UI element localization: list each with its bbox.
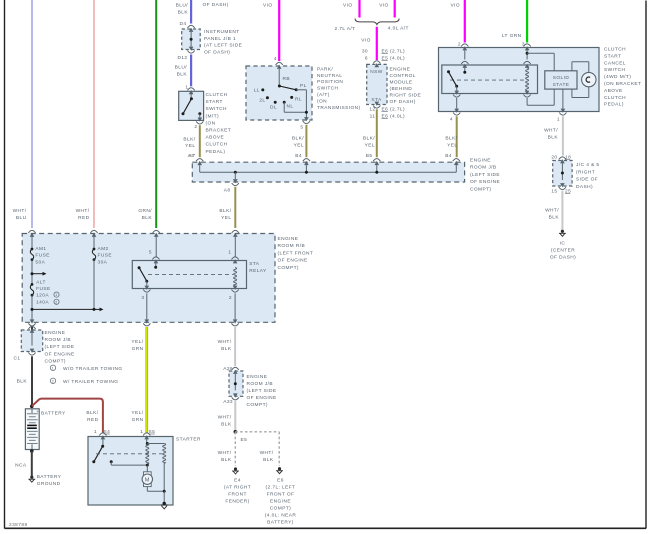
svg-text:NCA: NCA [15, 463, 27, 469]
svg-text:140A: 140A [36, 300, 49, 306]
svg-text:YEL: YEL [185, 143, 195, 149]
svg-text:2: 2 [52, 379, 54, 383]
svg-text:ABOVE: ABOVE [604, 88, 623, 94]
svg-text:IC: IC [560, 241, 566, 247]
svg-text:BLK: BLK [221, 346, 232, 352]
svg-text:BLK: BLK [548, 135, 559, 141]
svg-text:BLU/: BLU/ [176, 3, 189, 9]
svg-text:5: 5 [149, 250, 152, 256]
svg-text:YEL: YEL [447, 142, 457, 148]
svg-text:YEL: YEL [221, 215, 231, 221]
svg-text:RB: RB [283, 76, 291, 82]
svg-text:3: 3 [141, 295, 144, 301]
svg-text:COMPT): COMPT) [270, 506, 291, 512]
svg-text:PARK/: PARK/ [317, 66, 333, 72]
svg-text:1: 1 [55, 293, 57, 297]
svg-text:1: 1 [228, 250, 231, 256]
svg-text:OF ENGINE: OF ENGINE [247, 395, 277, 401]
svg-text:D12: D12 [177, 55, 187, 61]
svg-text:VIO: VIO [450, 3, 460, 9]
svg-text:BLK: BLK [142, 215, 153, 221]
svg-text:2.7L A/T: 2.7L A/T [334, 26, 355, 32]
svg-text:YEL/: YEL/ [131, 410, 143, 416]
svg-text:OF DASH): OF DASH) [203, 2, 229, 8]
svg-text:PEDAL): PEDAL) [604, 102, 624, 108]
svg-text:3: 3 [522, 42, 525, 48]
svg-text:30A: 30A [98, 259, 108, 265]
svg-text:(LEFT SIDE: (LEFT SIDE [470, 172, 500, 178]
svg-text:11: 11 [370, 114, 376, 120]
svg-text:ENGINE: ENGINE [278, 236, 299, 242]
svg-text:COMPT): COMPT) [247, 402, 268, 408]
svg-text:(AT LEFT SIDE: (AT LEFT SIDE [204, 43, 242, 49]
svg-text:LT GRN: LT GRN [502, 33, 522, 39]
svg-text:BLK: BLK [549, 215, 560, 221]
svg-text:WHT/: WHT/ [545, 208, 559, 214]
svg-text:OF DASH): OF DASH) [550, 255, 576, 261]
svg-text:M: M [145, 477, 150, 483]
svg-text:A33: A33 [223, 399, 233, 405]
svg-text:SIDE OF: SIDE OF [576, 177, 598, 183]
svg-text:DASH): DASH) [576, 184, 593, 190]
svg-text:RL: RL [295, 97, 302, 103]
svg-text:WHT/: WHT/ [544, 128, 558, 134]
svg-text:12: 12 [369, 107, 375, 113]
svg-text:POSITION: POSITION [317, 79, 343, 85]
svg-text:SWITCH: SWITCH [604, 67, 626, 73]
svg-text:MODULE: MODULE [390, 80, 413, 86]
svg-text:D4: D4 [180, 21, 187, 27]
svg-text:W/O TRAILER TOWING: W/O TRAILER TOWING [63, 366, 123, 372]
svg-text:STA: STA [249, 261, 260, 267]
svg-text:4.0L A/T: 4.0L A/T [388, 26, 409, 32]
svg-text:ENGINE: ENGINE [390, 67, 411, 73]
svg-text:SWITCH: SWITCH [317, 86, 339, 92]
svg-text:E6: E6 [277, 478, 284, 484]
svg-text:FRONT: FRONT [228, 492, 247, 498]
svg-text:GRN: GRN [132, 346, 144, 352]
svg-text:A7: A7 [189, 153, 196, 159]
svg-text:ABOVE: ABOVE [206, 135, 225, 141]
svg-text:(LEFT SIDE: (LEFT SIDE [45, 344, 75, 350]
svg-text:50A: 50A [35, 259, 45, 265]
svg-text:BLK: BLK [221, 457, 232, 463]
svg-text:LL: LL [254, 88, 260, 94]
svg-text:(ON BRACKET: (ON BRACKET [604, 81, 641, 87]
svg-text:J/C 4 & 5: J/C 4 & 5 [576, 162, 600, 168]
svg-text:CLUTCH: CLUTCH [206, 142, 228, 148]
svg-text:6: 6 [365, 56, 368, 62]
svg-text:OF DASH): OF DASH) [390, 99, 416, 105]
svg-text:CLUTCH: CLUTCH [604, 95, 626, 101]
svg-text:120A: 120A [36, 292, 49, 298]
svg-text:GRN/: GRN/ [138, 208, 152, 214]
svg-text:ROOM J/B: ROOM J/B [470, 165, 497, 171]
svg-text:BLK/: BLK/ [292, 136, 304, 142]
svg-text:CONTROL: CONTROL [390, 73, 416, 79]
svg-text:PANEL J/B 1: PANEL J/B 1 [204, 36, 236, 42]
svg-text:(CENTER: (CENTER [551, 248, 575, 254]
svg-text:DL: DL [270, 104, 277, 110]
svg-text:RED: RED [78, 215, 90, 221]
svg-text:ENGINE: ENGINE [45, 330, 66, 336]
svg-text:ENGINE: ENGINE [470, 158, 491, 164]
svg-text:FRONT OF: FRONT OF [267, 492, 295, 498]
svg-text:(2.7L: LEFT: (2.7L: LEFT [266, 485, 296, 491]
svg-text:1: 1 [140, 429, 143, 435]
svg-text:1: 1 [557, 117, 560, 123]
svg-text:FENDER): FENDER) [225, 499, 249, 505]
svg-text:BLK/: BLK/ [363, 136, 375, 142]
svg-text:PL: PL [300, 83, 307, 89]
svg-text:COMPT): COMPT) [278, 265, 299, 271]
svg-text:YEL: YEL [294, 142, 304, 148]
svg-text:OF ENGINE: OF ENGINE [470, 179, 500, 185]
svg-text:BLK: BLK [17, 379, 28, 385]
svg-text:2: 2 [55, 300, 57, 304]
svg-text:BLK: BLK [221, 422, 232, 428]
svg-text:E4: E4 [234, 478, 241, 484]
svg-text:(LEFT SIDE: (LEFT SIDE [247, 388, 277, 394]
svg-text:2: 2 [194, 124, 197, 130]
svg-text:15: 15 [551, 189, 557, 195]
svg-text:B4: B4 [295, 153, 302, 159]
svg-text:CLUTCH: CLUTCH [206, 92, 228, 98]
svg-text:START: START [604, 53, 621, 59]
svg-text:(ON: (ON [317, 98, 327, 104]
svg-text:TRANSMISSION): TRANSMISSION) [317, 105, 361, 111]
svg-text:SOLID: SOLID [553, 75, 570, 81]
svg-text:WHT/: WHT/ [13, 208, 27, 214]
svg-text:VIO: VIO [379, 3, 389, 9]
svg-text:RELAY: RELAY [249, 268, 267, 274]
svg-text:(AT RIGHT: (AT RIGHT [224, 485, 251, 491]
svg-text:WHT/: WHT/ [218, 450, 232, 456]
svg-text:BATTERY): BATTERY) [267, 520, 294, 526]
svg-text:WHT/: WHT/ [218, 415, 232, 421]
svg-text:COMPT): COMPT) [470, 186, 491, 192]
svg-text:FUSE: FUSE [36, 286, 50, 292]
svg-text:2: 2 [458, 42, 461, 48]
svg-text:YEL: YEL [365, 142, 375, 148]
svg-text:ALT: ALT [36, 280, 46, 286]
svg-text:OF ENGINE: OF ENGINE [278, 258, 308, 264]
svg-text:(ON: (ON [206, 120, 216, 126]
svg-text:GRN: GRN [132, 417, 144, 423]
svg-text:+: + [36, 409, 39, 414]
svg-text:AM1: AM1 [35, 246, 46, 252]
svg-text:2: 2 [229, 295, 232, 301]
svg-text:VIO: VIO [263, 3, 273, 9]
svg-text:C1: C1 [14, 356, 21, 362]
svg-text:BATTERY: BATTERY [37, 474, 62, 480]
svg-text:20: 20 [551, 155, 557, 161]
svg-text:BLK/: BLK/ [86, 410, 98, 416]
svg-text:OF DASH): OF DASH) [204, 49, 230, 55]
svg-text:(RIGHT: (RIGHT [576, 169, 595, 175]
svg-text:RED: RED [87, 417, 99, 423]
svg-text:VIO: VIO [361, 38, 371, 44]
svg-text:STATE: STATE [553, 82, 570, 88]
svg-text:BLK: BLK [263, 457, 274, 463]
svg-text:W/ TRAILER TOWING: W/ TRAILER TOWING [63, 379, 118, 385]
svg-text:238789: 238789 [9, 522, 28, 528]
svg-text:STARTER: STARTER [176, 437, 201, 443]
svg-text:CLUTCH: CLUTCH [604, 47, 626, 53]
svg-text:4: 4 [274, 56, 277, 62]
svg-text:A8: A8 [224, 188, 231, 194]
svg-text:WHT/: WHT/ [76, 208, 90, 214]
svg-text:2L: 2L [259, 98, 265, 104]
svg-text:E5: E5 [241, 437, 248, 443]
svg-text:NEUTRAL: NEUTRAL [317, 73, 342, 79]
svg-text:FUSE: FUSE [98, 253, 112, 259]
svg-text:SWITCH: SWITCH [206, 106, 228, 112]
svg-text:BLK/: BLK/ [219, 208, 231, 214]
svg-text:CANCEL: CANCEL [604, 60, 626, 66]
svg-text:YEL/: YEL/ [131, 339, 143, 345]
svg-text:WHT/: WHT/ [218, 339, 232, 345]
svg-text:5: 5 [300, 125, 303, 131]
svg-text:BLK: BLK [178, 10, 189, 16]
svg-text:BRACKET: BRACKET [206, 128, 232, 134]
svg-text:BLK: BLK [177, 72, 188, 78]
svg-text:INSTRUMENT: INSTRUMENT [204, 29, 240, 35]
svg-text:RIGHT SIDE: RIGHT SIDE [390, 93, 422, 99]
svg-text:BLU/: BLU/ [175, 65, 188, 71]
svg-text:WHT/: WHT/ [260, 450, 274, 456]
svg-text:PEDAL): PEDAL) [206, 149, 226, 155]
svg-text:4: 4 [450, 117, 453, 123]
svg-text:(BEHIND: (BEHIND [390, 86, 413, 92]
svg-text:1: 1 [94, 429, 97, 435]
svg-text:1: 1 [52, 366, 54, 370]
svg-text:(4.0L: NEAR: (4.0L: NEAR [265, 513, 297, 519]
svg-text:AM2: AM2 [98, 246, 109, 252]
svg-text:NL: NL [287, 104, 294, 110]
svg-text:FUSE: FUSE [35, 253, 49, 259]
svg-text:ROOM R/B: ROOM R/B [278, 243, 306, 249]
svg-text:BLK/: BLK/ [183, 137, 195, 143]
svg-text:BATTERY: BATTERY [41, 411, 66, 417]
svg-text:ENGINE: ENGINE [270, 499, 291, 505]
svg-text:ENGINE: ENGINE [247, 374, 268, 380]
svg-text:(A/T): (A/T) [317, 92, 330, 98]
svg-text:B4: B4 [445, 153, 452, 159]
svg-text:BLK/: BLK/ [445, 136, 457, 142]
svg-text:ROOM J/B: ROOM J/B [45, 337, 72, 343]
svg-text:COMPT): COMPT) [45, 358, 66, 364]
svg-text:OF ENGINE: OF ENGINE [45, 351, 75, 357]
svg-text:(M/T): (M/T) [206, 113, 220, 119]
svg-text:BLU: BLU [16, 215, 27, 221]
svg-text:NSW: NSW [370, 69, 383, 75]
svg-text:B5: B5 [366, 153, 373, 159]
svg-text:(LEFT FRONT: (LEFT FRONT [278, 250, 314, 256]
svg-text:START: START [206, 99, 223, 105]
svg-text:VIO: VIO [343, 3, 353, 9]
svg-text:30: 30 [362, 49, 368, 55]
svg-text:GROUND: GROUND [37, 481, 61, 487]
svg-text:ROOM J/B: ROOM J/B [247, 381, 274, 387]
svg-text:(4WD M/T): (4WD M/T) [604, 74, 631, 80]
